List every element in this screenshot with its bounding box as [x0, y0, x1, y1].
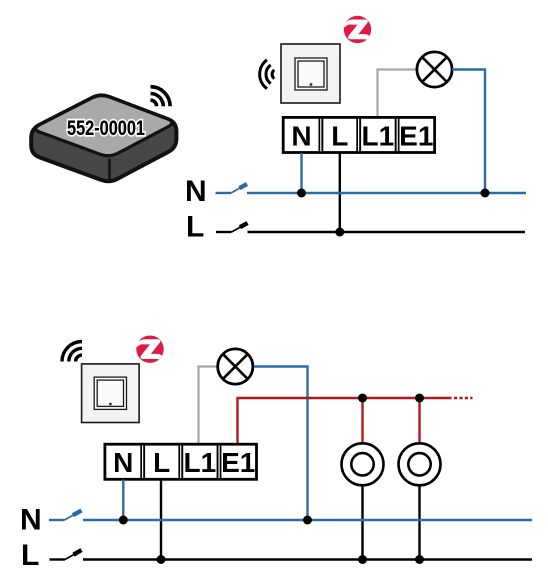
svg-text:552-00001: 552-00001: [67, 117, 145, 140]
L line (top, black) with switch break: [216, 223, 525, 232]
junction N/lamp (top): [481, 189, 490, 198]
terminal block seams (top): [321, 119, 397, 152]
wall switch S1 button: [295, 58, 327, 90]
wall switch S2 button: [94, 377, 126, 409]
gateway front corner edge: [108, 159, 111, 182]
terminal labels (top): [291, 121, 433, 152]
terminal labels (bottom): [113, 447, 255, 478]
lamp E (top): [417, 52, 452, 87]
red stub to load M1: [361, 398, 363, 444]
svg-text:L1: L1: [184, 447, 217, 478]
wire L terminal down (black): [339, 153, 341, 232]
junction L/M1: [358, 555, 367, 564]
gateway device top face: [36, 96, 172, 156]
svg-text:N: N: [20, 504, 42, 537]
junction L/terminal (top): [335, 228, 344, 237]
wire M1 to L line: [361, 485, 363, 559]
svg-text:E1: E1: [399, 121, 433, 152]
svg-text:L: L: [153, 447, 170, 478]
wall switch S2 radio waves: [62, 342, 82, 362]
terminal block seams (bottom): [143, 445, 220, 478]
svg-text:N: N: [113, 447, 133, 478]
wire L1 to lamp (grey): [378, 70, 417, 117]
red stub to load M2: [418, 398, 420, 444]
lamp E (bottom): [218, 349, 253, 384]
wire L1 to lamp (grey, bottom): [199, 367, 218, 444]
terminal block (top): [283, 117, 434, 152]
load M1: [342, 443, 384, 485]
red dashed continuation: [454, 397, 473, 399]
junction N/terminal (bottom): [119, 516, 128, 525]
svg-text:N: N: [185, 175, 207, 208]
svg-text:N: N: [291, 121, 311, 152]
junction red/M1: [358, 394, 367, 403]
wire E1 to loads (red): [238, 398, 452, 443]
wire N terminal down (blue, bottom): [122, 480, 124, 521]
wire lamp to N line (blue, bottom): [254, 367, 308, 521]
svg-text:L1: L1: [362, 121, 395, 152]
wall switch S1 radio waves: [260, 60, 275, 89]
wire M2 to L line: [418, 485, 420, 559]
svg-text:L: L: [186, 211, 204, 244]
L line (bottom, black) with switch break: [50, 550, 533, 560]
svg-text:E1: E1: [221, 447, 255, 478]
terminal block (bottom): [105, 444, 257, 479]
wire lamp to N line (blue): [452, 70, 485, 194]
wire N terminal down (blue): [300, 153, 302, 193]
gateway radio waves: [151, 87, 171, 107]
wall switch S2 plate: [82, 364, 140, 423]
Z-Wave logo (top): [343, 16, 372, 43]
junction N/terminal (top): [297, 189, 306, 198]
junction red/M2: [415, 394, 424, 403]
wire L terminal down (black, bottom): [160, 480, 162, 560]
junction N/lamp (bottom): [303, 516, 312, 525]
load M2: [399, 443, 441, 485]
gateway device 552-00001 body: [31, 95, 176, 181]
N line (bottom, blue) with switch break: [49, 511, 532, 521]
junction L/terminal (bottom): [157, 555, 166, 564]
N line (top, blue) with switch break: [216, 184, 527, 193]
label 552-00001: [67, 117, 145, 140]
Z-Wave logo (bottom): [136, 336, 165, 363]
wall switch S1 plate: [281, 44, 340, 103]
junction L/M2: [415, 555, 424, 564]
svg-text:L: L: [21, 539, 39, 572]
svg-text:L: L: [331, 121, 348, 152]
